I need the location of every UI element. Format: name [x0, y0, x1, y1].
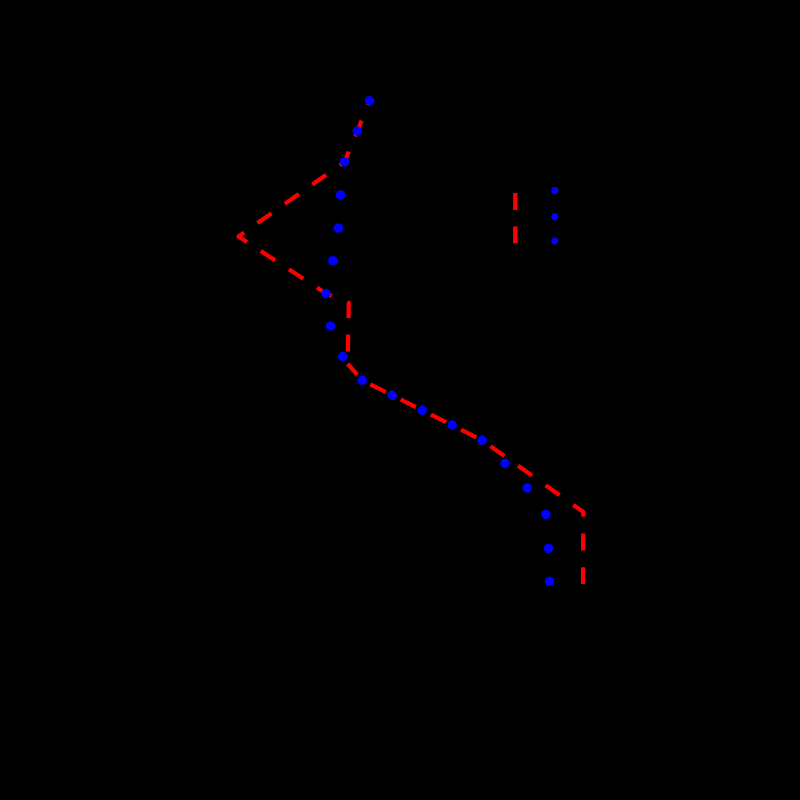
point 13	[447, 420, 457, 430]
point 3	[340, 157, 350, 167]
point 5	[334, 223, 344, 233]
point 15	[500, 459, 510, 469]
red dashed profile line (lower part)	[348, 364, 584, 584]
red dashed profile line (upper part)	[239, 101, 370, 364]
point 19	[545, 577, 555, 587]
point 12	[417, 406, 427, 416]
legend dashed line sample	[513, 193, 517, 244]
point 9	[338, 352, 348, 362]
blue data points	[321, 96, 554, 586]
point 7	[321, 289, 331, 299]
point 2	[353, 126, 363, 136]
point 6	[328, 256, 338, 266]
point 11	[387, 391, 397, 401]
point 8	[326, 321, 336, 331]
point 1	[365, 96, 375, 106]
point 16	[522, 483, 532, 493]
legend point markers	[551, 187, 558, 245]
point 4	[336, 190, 346, 200]
point 18	[544, 544, 554, 554]
point 17	[541, 510, 551, 520]
point 14	[477, 436, 487, 446]
point 10	[357, 376, 367, 386]
